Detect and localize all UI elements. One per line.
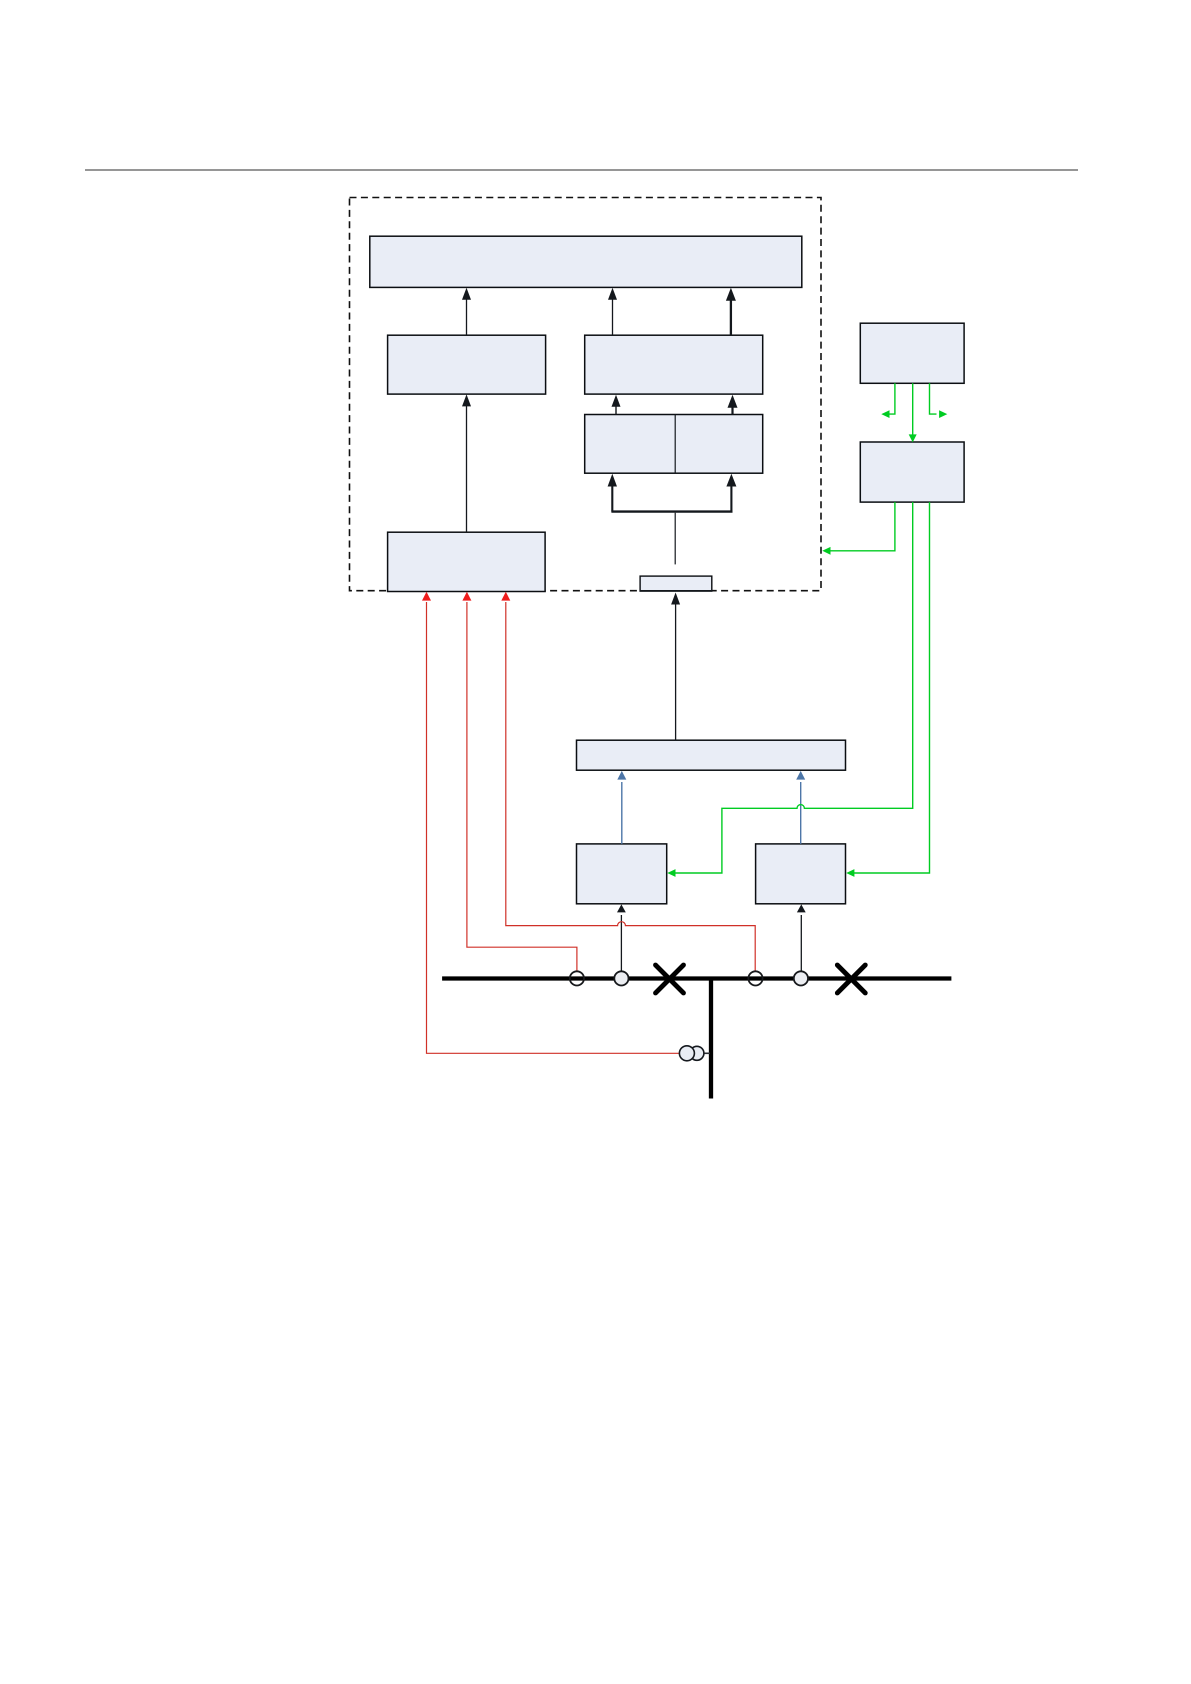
block D (double cell) <box>585 415 763 474</box>
block F (thin interface) <box>640 576 713 591</box>
blue wire arrow J to I <box>617 771 626 844</box>
wire arrow D to C right (bold) <box>728 395 738 415</box>
green wire G right stub with arrow <box>930 383 948 418</box>
green wire H to K <box>846 502 929 877</box>
black wire arrow CT1 to J <box>617 904 626 971</box>
wire arrow I to F <box>671 593 680 741</box>
breaker X2 <box>837 965 865 993</box>
green wire H to J (with hop) <box>667 502 912 877</box>
stem from bracket down <box>674 513 676 565</box>
green wire G left stub with arrow <box>881 383 895 418</box>
block C (right middle) <box>585 335 763 394</box>
dashed enclosure (IED boundary) <box>350 198 822 591</box>
wire arrow E to B <box>462 394 471 532</box>
block I (merging unit wide) <box>577 740 846 770</box>
block G (right top) <box>860 323 964 383</box>
blue wire arrow K to I <box>796 771 805 844</box>
block J (left small) <box>577 844 667 904</box>
block K (right small) <box>756 844 846 904</box>
block E (bottom left input) <box>388 532 545 591</box>
wire arrow C to A left <box>608 288 617 335</box>
black wire arrow CT3 to K <box>797 904 806 971</box>
current transformer CT2 (busbar sensor) <box>748 971 762 985</box>
wire arrow D to C left <box>612 395 621 415</box>
current transformer CT1b (busbar sensor) <box>614 971 628 985</box>
header rule <box>85 169 1078 171</box>
breaker X1 <box>656 965 684 993</box>
block A (top wide) <box>370 236 802 287</box>
bracket under block D with two up arrows <box>608 474 737 512</box>
current transformer CT1 (busbar sensor) <box>570 971 584 985</box>
red wire CT1 to E (middle) <box>462 592 577 972</box>
block H (right lower) <box>860 442 964 502</box>
green wire arrow G to H <box>909 383 917 442</box>
current transformer CT4 (circle pair on feeder) <box>679 1046 710 1061</box>
wire arrow B to A <box>462 288 471 335</box>
red wire CT2 to E (right, with hop) <box>501 592 755 972</box>
feeder bay line <box>709 979 713 1099</box>
block B (left middle) <box>388 335 546 394</box>
red wire CT4 to E (leftmost) <box>422 592 679 1054</box>
wire arrow C to A right (bold) <box>726 288 736 335</box>
busbar <box>442 976 951 980</box>
current transformer CT3 (busbar sensor) <box>794 971 808 985</box>
green wire H to dashed enclosure <box>822 502 895 555</box>
